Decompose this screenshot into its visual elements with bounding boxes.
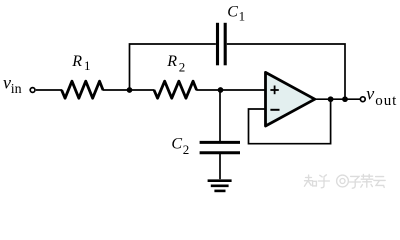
- wire R1 to R2: [103, 89, 155, 91]
- node A junction dot: [127, 87, 133, 93]
- capacitor C1: [216, 23, 219, 66]
- feedback wire minus input loop: [249, 99, 331, 144]
- char zi: [350, 176, 361, 188]
- output terminal vout: [360, 97, 365, 102]
- char yun: [374, 177, 385, 188]
- node B junction dot: [218, 87, 224, 93]
- capacitor C2: [200, 141, 240, 144]
- input terminal vin: [30, 88, 35, 93]
- wire R2 to op-amp plus input: [196, 89, 265, 91]
- node D junction dot (C1 to output): [342, 96, 348, 102]
- wire node A up and across to C1: [130, 44, 216, 90]
- watermark zhihu @ziMuYun drawn as light strokes: [304, 174, 385, 188]
- @: [337, 175, 349, 187]
- char hu: [318, 175, 329, 188]
- wire input to R1: [36, 89, 62, 91]
- svg-text:1: 1: [239, 9, 246, 24]
- wire C2 to ground: [219, 154, 221, 179]
- svg-text:1: 1: [84, 58, 91, 73]
- svg-text:2: 2: [179, 60, 186, 75]
- minus sign: [270, 109, 279, 111]
- resistor R2: [154, 81, 197, 98]
- svg-text:2: 2: [183, 142, 190, 157]
- svg-text:C: C: [171, 136, 182, 153]
- wire C1 to output node: [227, 44, 345, 99]
- ground: [208, 179, 232, 182]
- plus sign: [270, 89, 278, 91]
- node C junction dot (feedback to output): [328, 96, 334, 102]
- wire node B down to C2: [219, 90, 221, 141]
- svg-text:v: v: [3, 73, 11, 93]
- wire op-amp output: [315, 98, 360, 100]
- svg-text:R: R: [71, 53, 82, 70]
- svg-text:v: v: [366, 84, 374, 104]
- svg-text:C: C: [227, 3, 238, 20]
- char zhi: [304, 175, 312, 186]
- op-amp U1: [266, 72, 315, 126]
- svg-text:out: out: [375, 93, 397, 109]
- resistor R1: [62, 81, 103, 98]
- char mu: [361, 174, 373, 187]
- svg-text:R: R: [166, 53, 177, 70]
- svg-text:in: in: [11, 82, 22, 97]
